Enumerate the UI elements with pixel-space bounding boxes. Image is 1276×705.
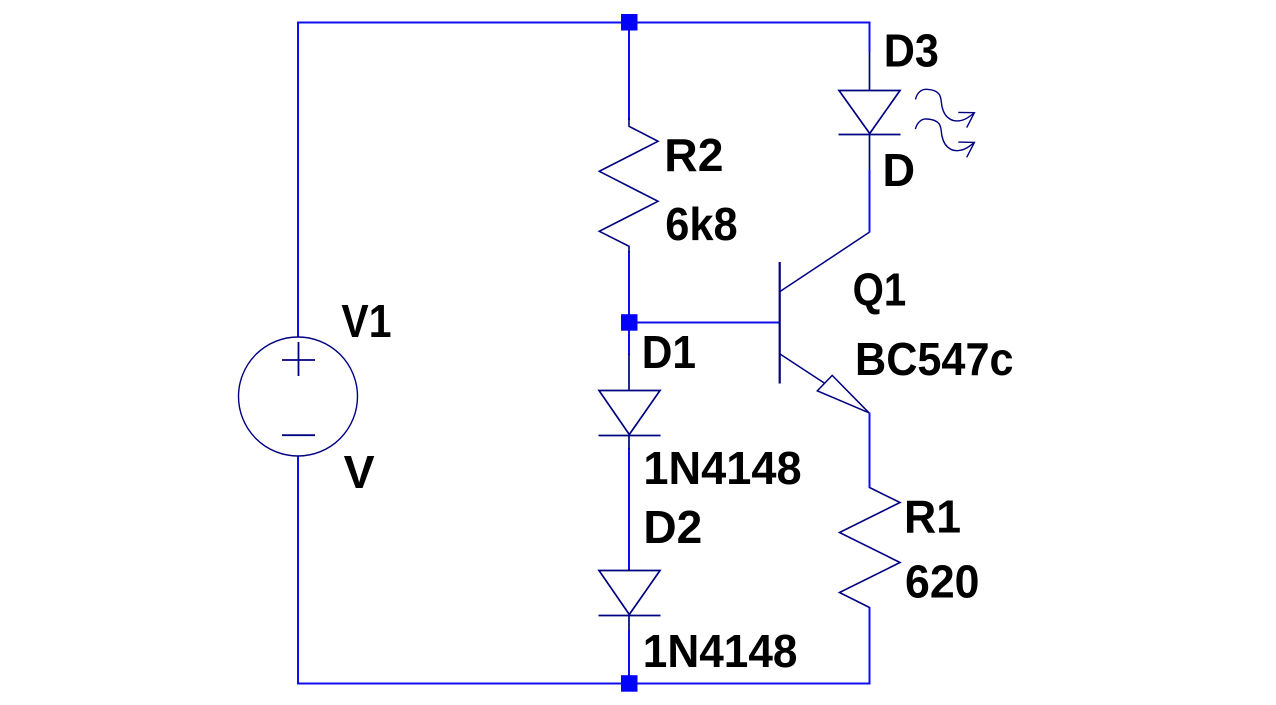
svg-text:1N4148: 1N4148 [643, 442, 801, 494]
diode D1 [599, 354, 661, 449]
junction node middle [621, 314, 638, 331]
resistor R1 [840, 488, 901, 608]
junction node bottom [621, 675, 638, 692]
resistor R2 [599, 118, 658, 252]
wire left vertical top [297, 22, 299, 338]
wire right top (LED anode drop) [869, 22, 871, 53]
svg-text:BC547c: BC547c [855, 333, 1014, 385]
svg-text:V: V [344, 446, 375, 498]
wire top horizontal [298, 22, 870, 24]
wire bottom horizontal [297, 683, 870, 685]
LED light arrow 2 [915, 119, 974, 157]
V1 minus sign [282, 434, 315, 436]
svg-text:D2: D2 [643, 501, 702, 553]
diode D2 [599, 569, 661, 630]
wire LED cathode to collector [869, 170, 871, 233]
wire top junction down to R2 [628, 22, 630, 120]
transistor Q1 emitter arrow [817, 375, 869, 412]
svg-text:V1: V1 [341, 295, 391, 347]
V1 plus sign [282, 342, 315, 376]
svg-text:D3: D3 [884, 25, 939, 77]
svg-text:R1: R1 [904, 491, 961, 543]
junction node top [621, 14, 638, 31]
LED D3 [839, 52, 901, 170]
wire left vertical bottom [297, 456, 299, 685]
wire R1 bottom to bottom rail [869, 607, 871, 685]
transistor Q1 emitter line [780, 354, 825, 384]
transistor Q1 base bar [779, 262, 781, 384]
wire mid junction to base [629, 322, 780, 324]
svg-text:Q1: Q1 [853, 264, 907, 316]
svg-text:D1: D1 [642, 326, 696, 378]
svg-text:620: 620 [905, 556, 980, 608]
svg-text:6k8: 6k8 [665, 198, 737, 250]
voltage source V1 circle [239, 337, 358, 456]
LED light arrow 1 [915, 89, 974, 127]
wire mid junction down to D1 [628, 323, 630, 355]
svg-text:D: D [883, 144, 916, 196]
wire D1 to D2 [628, 448, 630, 570]
wire R2 bottom to mid junction [628, 251, 630, 322]
transistor Q1 collector line [780, 232, 869, 291]
svg-text:R2: R2 [664, 129, 723, 181]
wire emitter to R1 [869, 413, 871, 489]
svg-text:1N4148: 1N4148 [643, 625, 798, 677]
wire D2 to bottom junction [628, 630, 630, 684]
